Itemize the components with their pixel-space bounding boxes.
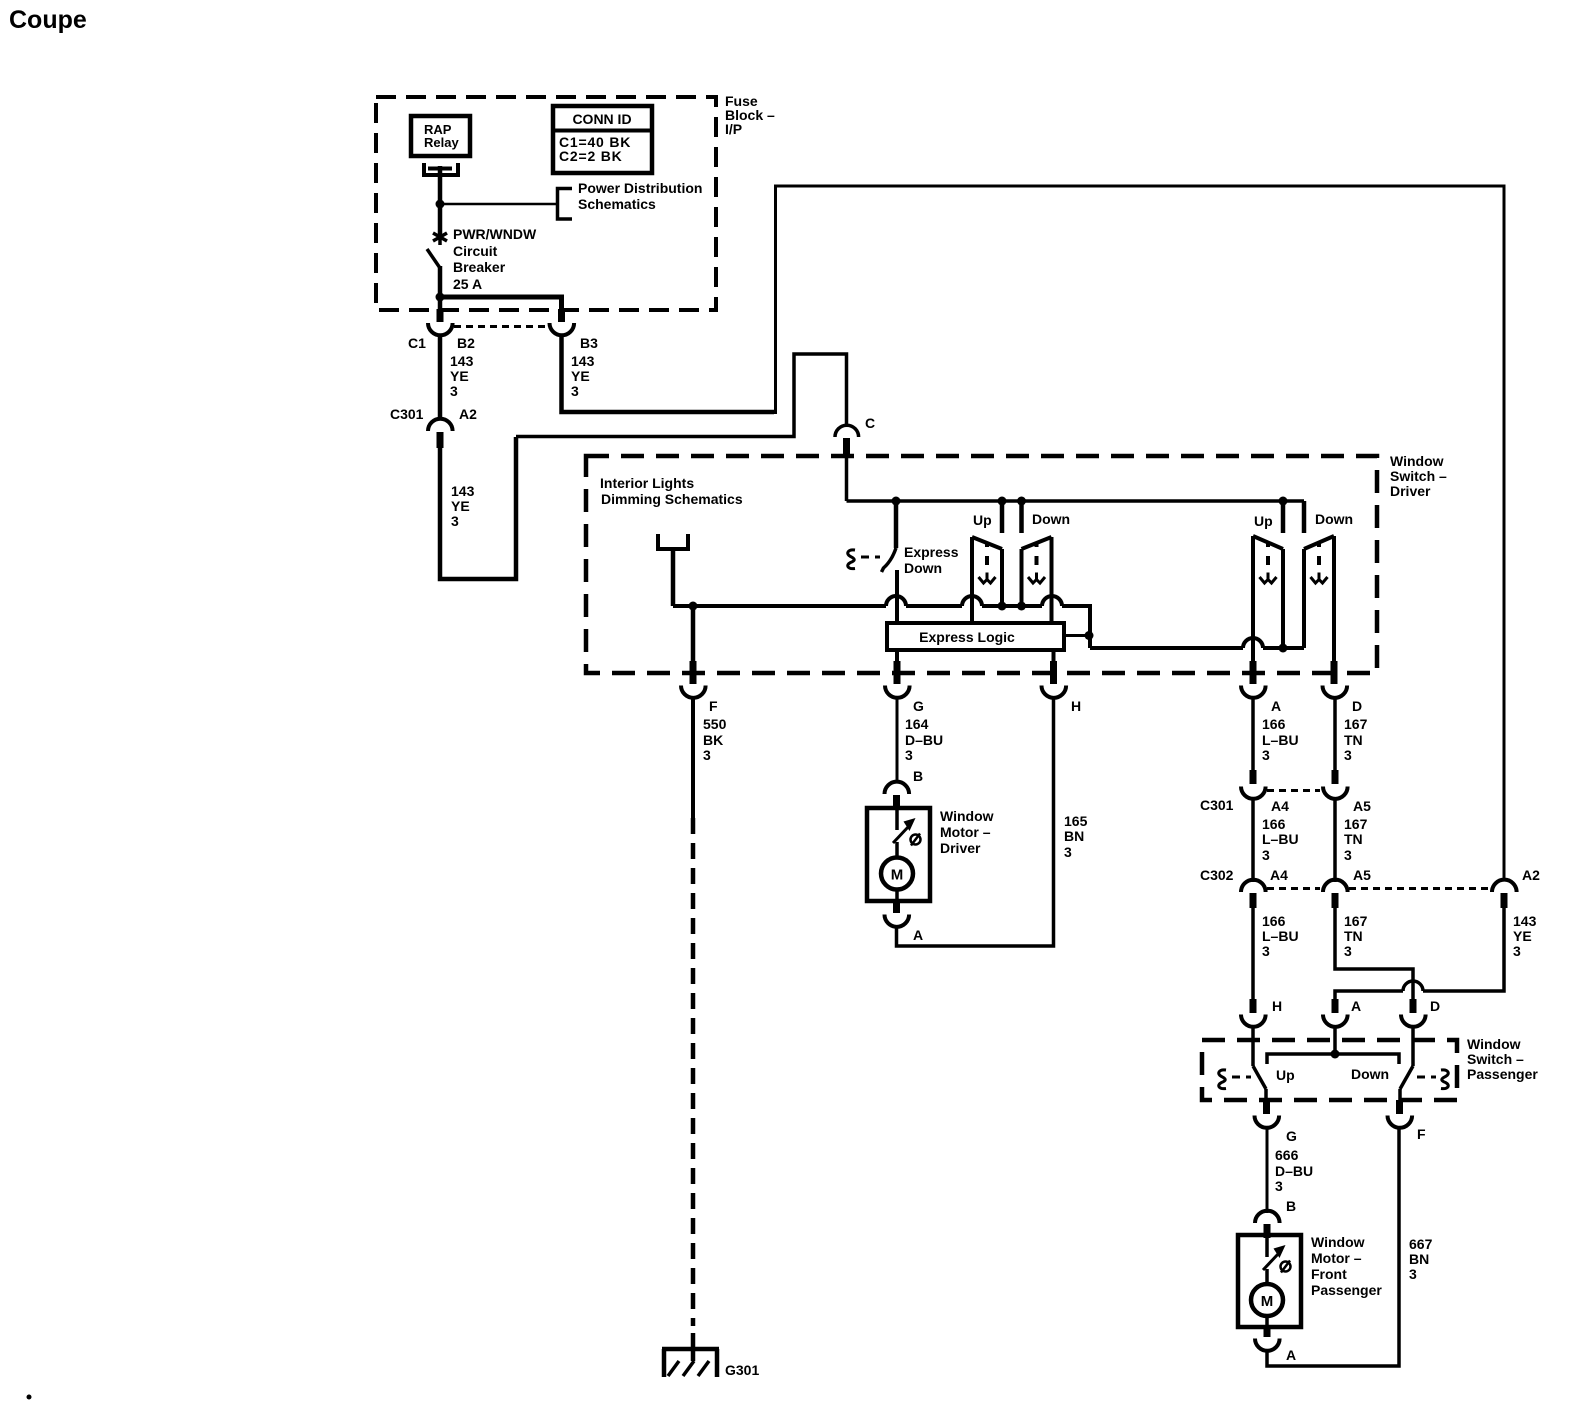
wire up passenger feed stub — [1281, 501, 1286, 533]
node junction above C1 — [436, 293, 445, 302]
connector tie C302 left — [1267, 887, 1320, 890]
svg-text:D–BU: D–BU — [905, 732, 943, 748]
connector H — [1042, 686, 1067, 698]
wire express logic output — [1064, 634, 1090, 637]
wire stub into connector A motor driver — [893, 901, 900, 913]
svg-text:C1: C1 — [408, 335, 426, 351]
hop up driver left edge — [962, 596, 982, 606]
svg-text:Schematics: Schematics — [578, 196, 656, 212]
wire B3 to top right run — [562, 334, 775, 412]
label 167 TN 3 mid — [1344, 816, 1368, 863]
label Window Switch Passenger — [1467, 1036, 1538, 1082]
wire stub into C301 A5 — [1332, 770, 1339, 784]
CONN ID box — [553, 106, 652, 173]
connector C301 A5 — [1323, 787, 1348, 799]
node up driver output — [998, 602, 1007, 611]
label RAP Relay — [424, 122, 459, 150]
node feed express down — [892, 497, 901, 506]
connector C302 A4 — [1241, 880, 1266, 892]
wire H into passenger switch — [1251, 1027, 1255, 1066]
connector C1 B3 — [549, 323, 574, 335]
svg-text:Motor –: Motor – — [940, 824, 991, 840]
svg-text:167: 167 — [1344, 816, 1368, 832]
wire interior lights drop — [671, 549, 676, 606]
hop down driver right edge — [1042, 596, 1062, 606]
label Window Motor Front Passenger — [1311, 1234, 1382, 1298]
node feed down driver — [1017, 497, 1026, 506]
svg-text:Window: Window — [1390, 453, 1444, 469]
wire stub into connector F passenger — [1396, 1100, 1403, 1114]
express down switch blade — [882, 548, 897, 572]
passenger mech curl right — [1441, 1070, 1448, 1089]
svg-text:Front: Front — [1311, 1266, 1347, 1282]
node down driver output — [1017, 602, 1026, 611]
detent up passenger — [1260, 542, 1277, 583]
svg-text:B3: B3 — [580, 335, 598, 351]
motor driver M circle — [881, 858, 913, 890]
wire C301 A2 to window switch feed — [440, 437, 516, 579]
svg-text:BN: BN — [1409, 1251, 1429, 1267]
label 143 YE 3 lower — [1513, 913, 1537, 959]
svg-text:CONN ID: CONN ID — [572, 111, 631, 127]
svg-text:YE: YE — [571, 368, 590, 384]
node passenger feed — [1331, 1050, 1340, 1059]
connector H passenger — [1241, 1015, 1266, 1027]
ground symbol G301 — [662, 1349, 719, 1377]
svg-text:Up: Up — [1276, 1067, 1295, 1083]
label 667 BN 3 — [1409, 1236, 1433, 1282]
svg-text:Window: Window — [1311, 1234, 1365, 1250]
svg-text:B2: B2 — [457, 335, 475, 351]
label Express Down — [904, 544, 959, 576]
svg-text:Interior Lights: Interior Lights — [600, 475, 694, 491]
motor passenger breaker — [1263, 1237, 1291, 1285]
node feed up driver — [998, 497, 1007, 506]
connector G — [885, 686, 910, 698]
label 550 BK 3 — [703, 716, 727, 763]
connector C301 A2 — [428, 419, 453, 431]
svg-text:A5: A5 — [1353, 798, 1371, 814]
svg-text:166: 166 — [1262, 816, 1286, 832]
connector F — [681, 686, 706, 698]
wire stub into connector F — [690, 661, 697, 684]
wire A feed into passenger switch — [1333, 1027, 1337, 1054]
wire junction to B3 drop — [438, 297, 562, 310]
label 164 D-BU 3 — [905, 716, 943, 763]
label 143 YE 3 at B3 — [571, 353, 595, 399]
svg-text:Passenger: Passenger — [1467, 1066, 1538, 1082]
svg-text:TN: TN — [1344, 928, 1363, 944]
node up passenger output — [1279, 644, 1288, 653]
svg-text:166: 166 — [1262, 716, 1286, 732]
svg-text:A: A — [913, 927, 923, 943]
wire G drop from express logic — [895, 650, 899, 662]
wire stub into passenger A — [1332, 999, 1339, 1013]
wire stub below B passenger — [1264, 1224, 1271, 1238]
svg-text:3: 3 — [1262, 847, 1270, 863]
hop 143 YE over D wire — [1403, 981, 1423, 991]
connector C1 B2 — [428, 323, 453, 335]
svg-text:3: 3 — [703, 747, 711, 763]
svg-text:C: C — [865, 415, 875, 431]
svg-text:D: D — [1352, 698, 1362, 714]
svg-text:3: 3 — [1262, 747, 1270, 763]
label 167 TN 3 lower — [1344, 913, 1368, 959]
svg-text:Power Distribution: Power Distribution — [578, 180, 702, 196]
node express logic output — [1085, 631, 1094, 640]
express down mech curl — [848, 550, 855, 569]
switch up passenger blade — [1253, 1066, 1266, 1089]
wire ground stub — [691, 1333, 696, 1361]
svg-text:3: 3 — [1513, 943, 1521, 959]
hop express down wire — [886, 596, 906, 606]
svg-text:Up: Up — [1254, 513, 1273, 529]
svg-text:Express Logic: Express Logic — [919, 629, 1015, 645]
lower bus driver switch — [673, 606, 1090, 648]
switch up driver — [972, 537, 1002, 623]
svg-text:A2: A2 — [1522, 867, 1540, 883]
window motor front passenger box — [1238, 1235, 1301, 1327]
passenger feed bus — [1267, 1054, 1399, 1064]
node lower bus F drop — [689, 602, 698, 611]
connector D passenger — [1401, 1015, 1426, 1027]
svg-text:Up: Up — [973, 512, 992, 528]
svg-text:666: 666 — [1275, 1147, 1299, 1163]
svg-text:L–BU: L–BU — [1262, 732, 1299, 748]
svg-text:3: 3 — [450, 383, 458, 399]
connector G passenger — [1255, 1116, 1280, 1128]
wire G to motor B passenger — [1266, 1128, 1269, 1213]
svg-text:TN: TN — [1344, 831, 1363, 847]
wire stub into connector G — [894, 661, 901, 684]
connector A passenger — [1323, 1015, 1348, 1027]
label 167 TN 3 — [1344, 716, 1368, 763]
label 143 YE 3 below C301 — [451, 483, 475, 529]
svg-text:3: 3 — [1262, 943, 1270, 959]
hop up passenger left edge — [1243, 638, 1263, 648]
switch down passenger blade — [1400, 1066, 1413, 1089]
window switch passenger dashed box — [1202, 1040, 1457, 1100]
svg-text:Driver: Driver — [940, 840, 981, 856]
interior lights pointer bracket — [658, 534, 688, 549]
svg-text:L–BU: L–BU — [1262, 831, 1299, 847]
svg-text:3: 3 — [1344, 943, 1352, 959]
svg-text:BN: BN — [1064, 828, 1084, 844]
label Power Distribution Schematics — [578, 180, 702, 212]
wire motor output — [895, 890, 899, 902]
wire C302 A4 to passenger H — [1251, 907, 1255, 1000]
svg-text:A4: A4 — [1271, 798, 1289, 814]
label Window Motor Driver — [940, 808, 994, 856]
connector B motor passenger — [1255, 1211, 1280, 1223]
svg-text:F: F — [1417, 1126, 1426, 1142]
fuse block I/P dashed box — [376, 97, 716, 310]
label 165 BN 3 — [1064, 813, 1088, 860]
label PWR/WNDW Circuit Breaker 25 A — [453, 226, 537, 292]
wire up driver feed stub — [1000, 501, 1005, 533]
connector D driver switch — [1323, 686, 1348, 698]
svg-text:C301: C301 — [390, 406, 424, 422]
wire to power distribution pointer — [440, 203, 557, 206]
wire down output to F — [1398, 1089, 1402, 1100]
svg-text:H: H — [1272, 998, 1282, 1014]
svg-text:D: D — [1430, 998, 1440, 1014]
svg-text:F: F — [709, 698, 718, 714]
svg-text:A: A — [1351, 998, 1361, 1014]
svg-text:Motor –: Motor – — [1311, 1250, 1362, 1266]
svg-text:Circuit: Circuit — [453, 243, 498, 259]
wire 143 YE jog to A — [1335, 907, 1504, 1000]
node feed up passenger — [1279, 497, 1288, 506]
wire stub into passenger H — [1250, 999, 1257, 1013]
svg-text:143: 143 — [1513, 913, 1537, 929]
wire express down lower contact — [895, 570, 899, 623]
wire top right run down to A2 — [776, 186, 1505, 881]
label Fuse Block I/P — [725, 93, 775, 137]
wire H drop from express logic — [1052, 650, 1056, 662]
svg-text:YE: YE — [450, 368, 469, 384]
svg-text:A5: A5 — [1353, 867, 1371, 883]
detent up driver — [979, 542, 996, 583]
svg-text:C302: C302 — [1200, 867, 1234, 883]
pointer bracket power distribution — [558, 189, 573, 220]
wire stub into connector G passenger — [1263, 1100, 1270, 1114]
connector A driver switch — [1241, 686, 1266, 698]
label 143 YE 3 at B2 — [450, 353, 474, 399]
svg-text:165: 165 — [1064, 813, 1088, 829]
svg-text:Driver: Driver — [1390, 483, 1431, 499]
window motor driver box — [867, 808, 930, 901]
circuit breaker thermal asterisk — [433, 229, 447, 245]
feed bus in driver switch — [847, 499, 1305, 503]
svg-text:Window: Window — [1467, 1036, 1521, 1052]
svg-text:Switch –: Switch – — [1467, 1051, 1524, 1067]
svg-text:143: 143 — [451, 483, 475, 499]
label 166 L-BU 3 — [1262, 716, 1299, 763]
svg-text:M: M — [891, 867, 904, 884]
detent down passenger — [1311, 542, 1328, 583]
svg-text:Relay: Relay — [424, 135, 459, 150]
wire stub below C302 A5 — [1332, 893, 1339, 908]
svg-text:G: G — [1286, 1128, 1297, 1144]
connector C301 A4 — [1241, 787, 1266, 799]
svg-text:Coupe: Coupe — [9, 6, 87, 34]
svg-text:164: 164 — [905, 716, 929, 732]
wire stub into C1 B3 — [558, 309, 565, 322]
svg-text:166: 166 — [1262, 913, 1286, 929]
svg-text:3: 3 — [451, 513, 459, 529]
passenger mech dashes right — [1417, 1076, 1436, 1079]
svg-text:B: B — [1286, 1198, 1296, 1214]
svg-text:TN: TN — [1344, 732, 1363, 748]
svg-text:Passenger: Passenger — [1311, 1282, 1382, 1298]
wire C301 to C302 left — [1251, 798, 1255, 882]
svg-text:A2: A2 — [459, 406, 477, 422]
wire C301 to C302 right — [1333, 798, 1337, 882]
svg-text:3: 3 — [1344, 747, 1352, 763]
node junction at RAP output — [436, 200, 445, 209]
wire A to C301 — [1251, 698, 1255, 771]
switch down passenger — [1304, 536, 1334, 662]
svg-text:667: 667 — [1409, 1236, 1433, 1252]
wire stub below C302 A2 — [1501, 893, 1508, 908]
wire motor A loop to F passenger — [1267, 1128, 1399, 1366]
svg-text:A: A — [1271, 698, 1281, 714]
circuit breaker blade — [427, 249, 440, 268]
wire jog to C connector — [516, 354, 847, 437]
wire C302 A5 jog to D — [1335, 907, 1413, 1000]
svg-text:Down: Down — [1315, 511, 1353, 527]
label Window Switch Driver — [1390, 453, 1447, 499]
wire F to ground dashed — [691, 818, 696, 1326]
svg-text:3: 3 — [1064, 844, 1072, 860]
svg-text:Down: Down — [1351, 1066, 1389, 1082]
svg-text:PWR/WNDW: PWR/WNDW — [453, 226, 537, 242]
svg-text:Window: Window — [940, 808, 994, 824]
switch down driver — [1022, 537, 1052, 623]
label 666 D-BU 3 — [1275, 1147, 1313, 1194]
svg-text:Breaker: Breaker — [453, 259, 506, 275]
label Interior Lights Dimming Schematics — [600, 475, 743, 507]
svg-text:BK: BK — [703, 732, 723, 748]
connector tie C301 — [1267, 789, 1320, 792]
svg-text:3: 3 — [1275, 1178, 1283, 1194]
wire stub into C301 A4 — [1250, 770, 1257, 784]
svg-text:G: G — [913, 698, 924, 714]
wire stub below B into motor — [893, 795, 900, 810]
svg-text:D–BU: D–BU — [1275, 1163, 1313, 1179]
svg-text:550: 550 — [703, 716, 727, 732]
svg-text:YE: YE — [451, 498, 470, 514]
wire stub into connector A driver switch — [1250, 661, 1257, 684]
svg-text:Down: Down — [904, 560, 942, 576]
page dot — [27, 1395, 32, 1400]
wire F to ground solid — [691, 698, 695, 818]
wire stub into connector H — [1050, 661, 1057, 684]
svg-text:Down: Down — [1032, 511, 1070, 527]
wire stub into C1 B2 — [437, 309, 444, 322]
window switch driver dashed box — [586, 456, 1377, 673]
wire D into passenger switch — [1411, 1027, 1415, 1066]
relay contact symbol — [424, 163, 458, 175]
wire stub into passenger D — [1410, 999, 1417, 1013]
wire express down feed contact — [894, 501, 899, 548]
svg-text:167: 167 — [1344, 913, 1368, 929]
svg-text:B: B — [913, 768, 923, 784]
wire D to C301 — [1333, 698, 1337, 771]
passenger mech curl left — [1219, 1070, 1226, 1089]
svg-text:G301: G301 — [725, 1362, 759, 1378]
wire motor passenger output — [1265, 1316, 1269, 1327]
wire G to motor B — [896, 698, 899, 782]
connector F passenger — [1388, 1116, 1413, 1128]
connector tie C302 right — [1349, 887, 1490, 890]
lower bus to passenger pair — [1090, 646, 1304, 650]
label 166 L-BU 3 mid — [1262, 816, 1299, 863]
wire motor A loop to H — [897, 698, 1054, 946]
svg-text:Dimming Schematics: Dimming Schematics — [601, 491, 743, 507]
svg-text:YE: YE — [1513, 928, 1532, 944]
connector tie C1 — [454, 325, 549, 328]
svg-text:I/P: I/P — [725, 121, 742, 137]
wire C into switch feed bus — [845, 454, 849, 501]
connector C at driver switch — [835, 425, 859, 455]
wire breaker to C1 junction — [438, 266, 443, 310]
wire relay to junction — [438, 166, 443, 240]
svg-text:3: 3 — [1344, 847, 1352, 863]
passenger mech dashes left — [1232, 1076, 1251, 1079]
svg-text:143: 143 — [450, 353, 474, 369]
svg-text:M: M — [1261, 1293, 1274, 1310]
svg-text:Switch –: Switch – — [1390, 468, 1447, 484]
express logic box — [887, 623, 1064, 650]
svg-text:C2=2 BK: C2=2 BK — [559, 148, 623, 164]
label 166 L-BU 3 lower — [1262, 913, 1299, 959]
wire up output to G — [1264, 1089, 1268, 1100]
connector B motor driver — [884, 782, 909, 794]
connector C302 A2 — [1492, 880, 1517, 892]
svg-text:H: H — [1071, 698, 1081, 714]
wire stub into connector A motor passenger — [1264, 1327, 1271, 1337]
svg-text:C301: C301 — [1200, 797, 1234, 813]
svg-text:25 A: 25 A — [453, 276, 482, 292]
wire stub into connector D driver switch — [1331, 661, 1338, 684]
wire down passenger feed stub — [1302, 501, 1307, 533]
wire stub below C302 A4 — [1250, 893, 1257, 908]
svg-text:3: 3 — [1409, 1266, 1417, 1282]
svg-text:143: 143 — [571, 353, 595, 369]
svg-text:3: 3 — [571, 383, 579, 399]
detent down driver — [1028, 542, 1045, 583]
svg-text:3: 3 — [905, 747, 913, 763]
switch up passenger — [1253, 536, 1283, 662]
connector A motor driver — [884, 915, 909, 927]
svg-text:Express: Express — [904, 544, 959, 560]
wire B2 to C301 A2 — [438, 334, 443, 420]
svg-text:A: A — [1286, 1347, 1296, 1363]
wire F drop to connector — [691, 606, 696, 662]
wire stub below C301 A2 — [437, 432, 444, 448]
svg-text:L–BU: L–BU — [1262, 928, 1299, 944]
motor driver breaker — [893, 810, 921, 858]
express down mech dashes — [861, 556, 880, 559]
motor passenger M circle — [1251, 1284, 1283, 1316]
connector A motor passenger — [1255, 1339, 1280, 1351]
connector C302 A5 — [1323, 880, 1348, 892]
svg-text:A4: A4 — [1270, 867, 1288, 883]
svg-text:167: 167 — [1344, 716, 1368, 732]
RAP relay box — [411, 116, 470, 156]
wire down driver feed stub — [1019, 501, 1024, 533]
